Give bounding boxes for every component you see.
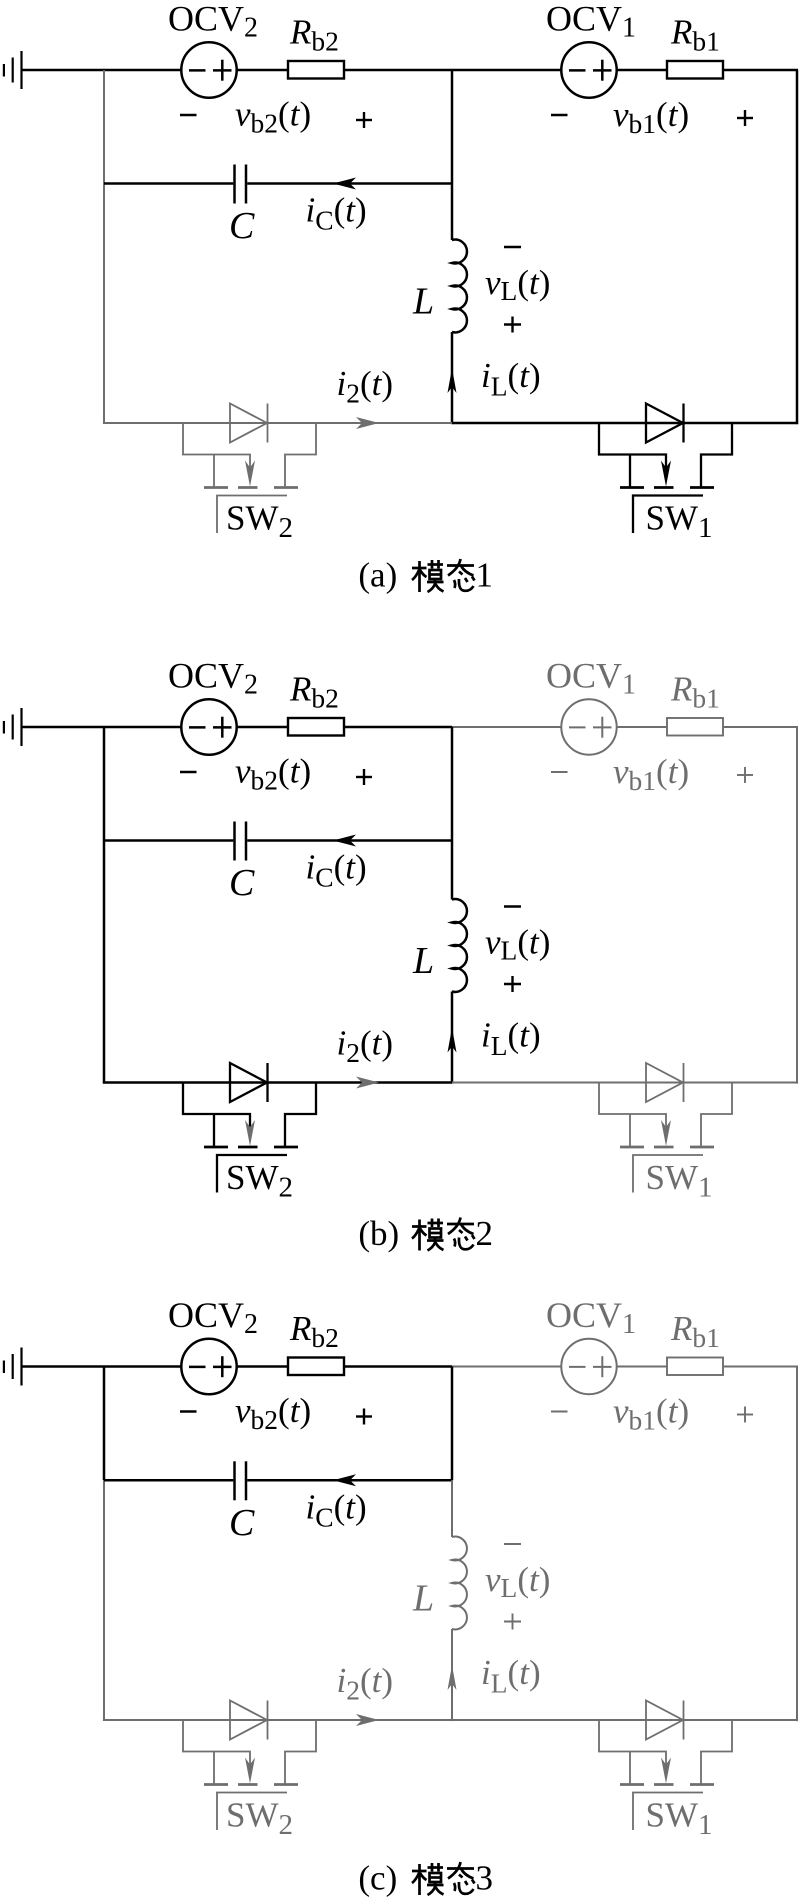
wire right vertical (B1 to SW1) [796, 1367, 798, 1722]
svg-text:vL(t): vL(t) [485, 263, 550, 306]
wire mid vertical middle (capacitor junction to inductor) [451, 841, 454, 900]
wire bottom-right net (SW1 branch) [452, 1082, 798, 1084]
body diode of SW2 [230, 404, 268, 443]
transistor SW2 MOSFET body [183, 423, 316, 488]
transistor SW2 MOSFET body [183, 1083, 316, 1148]
label minus of vb2 [180, 1410, 197, 1412]
voltage source OCV2 [181, 42, 236, 97]
label plus of vL [504, 317, 521, 333]
gate lead of SW2 [217, 496, 287, 534]
svg-text:C: C [229, 862, 255, 904]
voltage source OCV1 [561, 42, 616, 97]
svg-text:C: C [229, 205, 255, 247]
wire bottom-left net (SW2 branch) [103, 1081, 452, 1084]
resistor Rb2 [288, 1358, 344, 1376]
wire capacitor branch left [104, 1479, 233, 1482]
label minus of vb2 [180, 114, 197, 116]
svg-text:iC(t): iC(t) [306, 1487, 367, 1532]
wire capacitor branch right [247, 839, 452, 842]
wire mid vertical upper (node K to capacitor junction) [451, 727, 454, 841]
wire mid vertical middle (capacitor junction to inductor) [451, 184, 454, 241]
body diode of SW2 [230, 1063, 268, 1102]
resistor Rb2 [288, 61, 344, 79]
SW2 body arrow [245, 1120, 255, 1146]
transistor SW1 MOSFET body [599, 1083, 732, 1148]
svg-text:iL(t): iL(t) [481, 356, 541, 402]
svg-text:C: C [229, 1502, 255, 1544]
wire top-right net (node K to battery B1) [452, 726, 798, 728]
voltage source OCV1 [561, 699, 616, 754]
wire bottom-right net (SW1 branch) [452, 422, 798, 425]
wire right vertical (B1 to SW1) [796, 70, 799, 424]
svg-text:vL(t): vL(t) [485, 923, 550, 966]
capacitor C [235, 822, 247, 861]
wire left vertical upper (node A to capacitor) [103, 727, 106, 841]
resistor Rb1 [667, 718, 723, 736]
current arrow iL [448, 368, 457, 393]
svg-text:iC(t): iC(t) [306, 848, 367, 893]
label plus of vb1 [737, 110, 753, 126]
wire capacitor branch left [104, 839, 233, 842]
svg-text:i2(t): i2(t) [337, 364, 394, 409]
wire top-right net (node K to battery B1) [452, 1366, 798, 1368]
label plus of vb2 [356, 769, 372, 785]
resistor Rb1 [667, 61, 723, 79]
label plus of vb1 [737, 1407, 753, 1423]
wire top-left net (ground to node K) [22, 726, 453, 729]
svg-text:L: L [412, 940, 434, 982]
label plus of vb2 [356, 112, 372, 128]
svg-text:iC(t): iC(t) [306, 191, 367, 236]
wire mid vertical middle (capacitor junction to inductor) [451, 1480, 453, 1537]
current arrow iL [448, 1028, 457, 1053]
voltage source OCV2 [181, 699, 236, 754]
body diode of SW2 [230, 1701, 268, 1740]
label minus of vb1 [551, 771, 568, 773]
current arrow iL [448, 1665, 457, 1690]
wire capacitor branch left [104, 182, 233, 185]
svg-text:iL(t): iL(t) [481, 1016, 541, 1062]
ground [4, 51, 22, 89]
inductor L [452, 1537, 467, 1630]
body diode of SW1 [646, 1063, 684, 1102]
svg-text:vL(t): vL(t) [485, 1560, 550, 1603]
wire top-left net (ground to node K) [22, 69, 453, 72]
wire left vertical upper (node A to capacitor) [103, 70, 105, 184]
current arrow i2 [356, 1077, 379, 1089]
wire mid vertical upper (node K to capacitor junction) [451, 1367, 454, 1481]
gate lead of SW1 [633, 1155, 703, 1193]
wire bottom-left net (SW2 branch) [103, 1719, 452, 1721]
resistor Rb2 [288, 718, 344, 736]
gate lead of SW2 [217, 1155, 287, 1193]
current arrow iC [333, 178, 356, 190]
SW1 body arrow [661, 1758, 671, 1784]
body diode of SW1 [646, 1701, 684, 1740]
svg-text:i2(t): i2(t) [337, 1024, 394, 1069]
gate lead of SW1 [633, 496, 703, 534]
wire bottom-left net (SW2 branch) [103, 422, 452, 424]
label minus of vb1 [551, 1411, 568, 1413]
SW2 body arrow [245, 461, 255, 487]
wire top-left net (ground to node K) [22, 1365, 453, 1368]
svg-text:L: L [412, 1578, 434, 1620]
label minus of vL [504, 905, 521, 907]
svg-text:1: 1 [476, 556, 494, 595]
current arrow iC [333, 835, 356, 847]
inductor L [452, 240, 467, 333]
label plus of vL [504, 1614, 521, 1630]
wire left vertical lower (capacitor to SW2) [103, 184, 105, 425]
SW2 body arrow [245, 1758, 255, 1784]
capacitor C [235, 165, 247, 204]
current arrow i2 [356, 417, 379, 429]
svg-text:(c): (c) [358, 1859, 397, 1898]
SW1 body arrow [661, 461, 671, 487]
svg-text:3: 3 [476, 1859, 494, 1898]
svg-text:i2(t): i2(t) [337, 1661, 394, 1706]
ground [4, 708, 22, 746]
svg-text:L: L [412, 281, 434, 323]
svg-text:2: 2 [476, 1214, 494, 1253]
svg-text:iL(t): iL(t) [481, 1653, 541, 1699]
voltage source OCV2 [181, 1339, 236, 1394]
ground [4, 1348, 22, 1386]
gate lead of SW1 [633, 1793, 703, 1831]
wire right vertical (B1 to SW1) [796, 727, 798, 1084]
current arrow i2 [356, 1714, 379, 1726]
voltage source OCV1 [561, 1339, 616, 1394]
wire left vertical upper (node A to capacitor) [103, 1367, 106, 1481]
current arrow iC [333, 1474, 356, 1486]
wire capacitor branch right [247, 1479, 452, 1482]
capacitor C [235, 1461, 247, 1500]
transistor SW1 MOSFET body [599, 423, 732, 488]
wire mid vertical lower (inductor to node M) [451, 1629, 453, 1721]
transistor SW1 MOSFET body [599, 1720, 732, 1785]
wire left vertical lower (capacitor to SW2) [103, 841, 106, 1084]
label minus of vb1 [551, 114, 568, 116]
wire top-right net (node K to battery B1) [452, 69, 798, 72]
wire bottom-right net (SW1 branch) [452, 1719, 798, 1721]
wire left vertical lower (capacitor to SW2) [103, 1480, 105, 1721]
gate lead of SW2 [217, 1793, 287, 1831]
label plus of vb2 [356, 1409, 372, 1425]
label minus of vb2 [180, 771, 197, 773]
svg-text:(b): (b) [358, 1214, 399, 1253]
resistor Rb1 [667, 1358, 723, 1376]
SW1 body arrow [661, 1120, 671, 1146]
svg-text:(a): (a) [358, 556, 397, 595]
label minus of vL [504, 1543, 521, 1545]
inductor L [452, 899, 467, 992]
label minus of vL [504, 246, 521, 248]
transistor SW2 MOSFET body [183, 1720, 316, 1785]
wire mid vertical lower (inductor to node M) [451, 992, 454, 1084]
label plus of vL [504, 976, 521, 992]
label plus of vb1 [737, 767, 753, 783]
wire mid vertical upper (node K to capacitor junction) [451, 70, 454, 184]
body diode of SW1 [646, 404, 684, 443]
wire capacitor branch right [247, 182, 452, 185]
wire mid vertical lower (inductor to node M) [451, 332, 454, 424]
